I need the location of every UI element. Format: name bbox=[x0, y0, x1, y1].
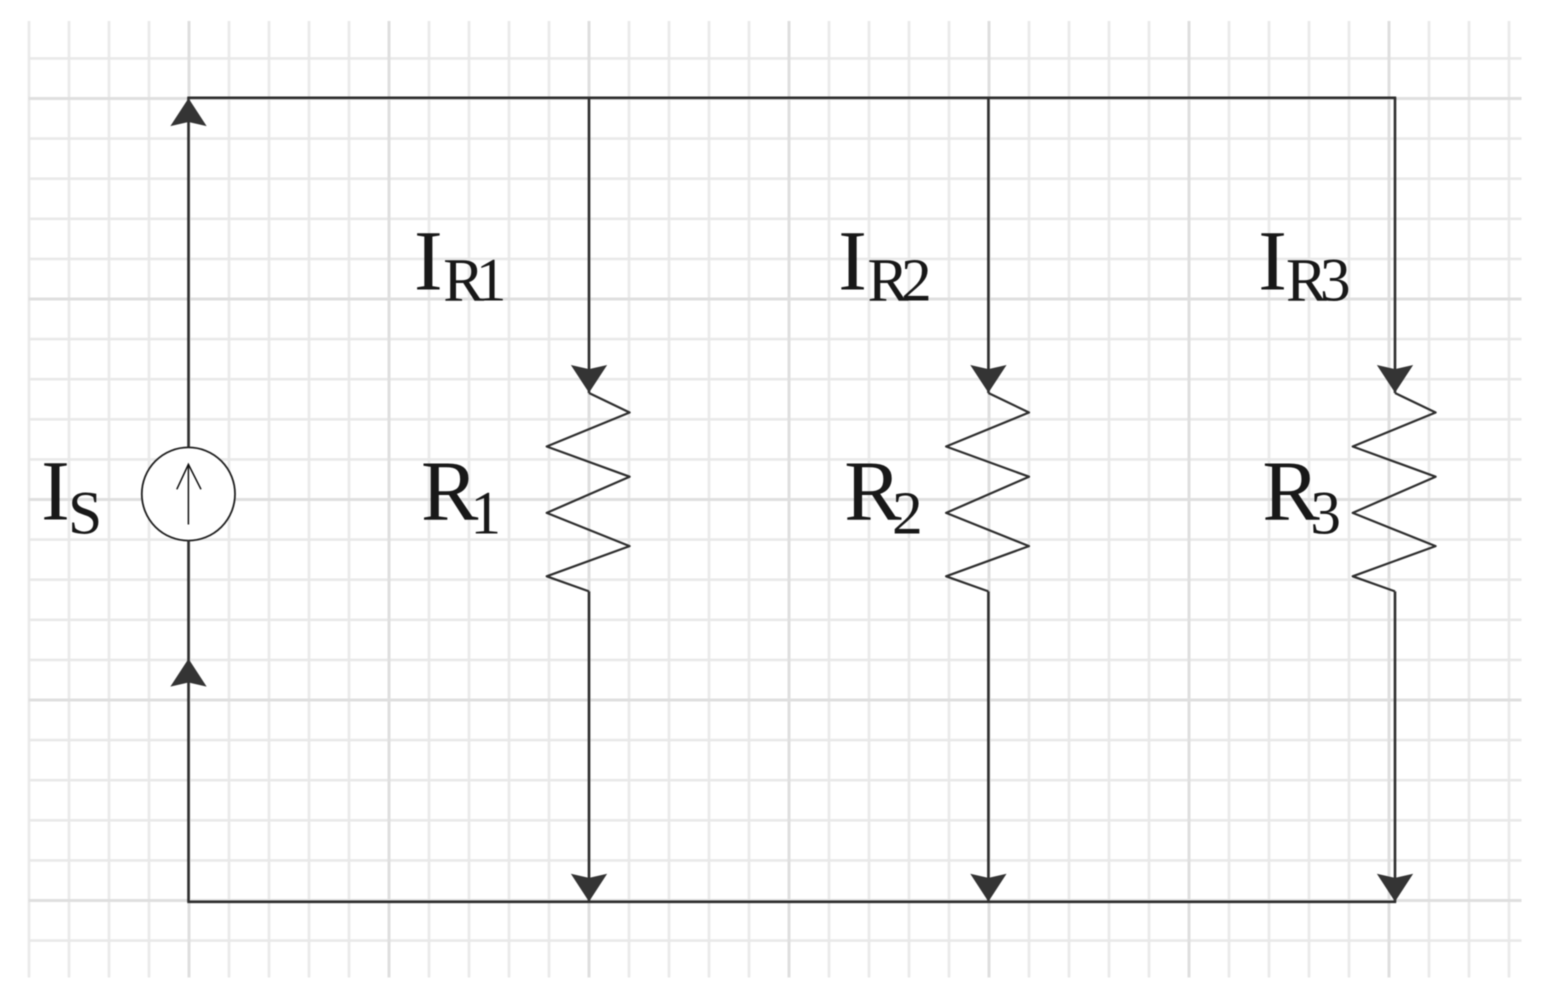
label IR1 (branch current) bbox=[414, 213, 507, 315]
wire R1 branch upper segment bbox=[588, 98, 591, 393]
current arrow IR1 pointing down bbox=[571, 365, 607, 393]
current arrow at bottom of R3 branch bbox=[1377, 874, 1413, 902]
label IR3 (branch current) bbox=[1258, 213, 1350, 315]
svg-text:1: 1 bbox=[470, 480, 501, 548]
svg-text:I: I bbox=[838, 213, 867, 309]
label IR2 (branch current) bbox=[838, 213, 932, 315]
svg-text:I: I bbox=[41, 443, 70, 539]
wire R1 branch lower segment bbox=[588, 591, 591, 901]
resistor R2 zigzag bbox=[946, 393, 1029, 591]
label R1 bbox=[421, 443, 501, 548]
resistor R3 zigzag bbox=[1353, 393, 1436, 591]
current source IS internal arrow bbox=[177, 464, 201, 524]
current direction arrow up below source bbox=[170, 659, 206, 687]
svg-text:3: 3 bbox=[1310, 480, 1341, 548]
wire R2 branch upper segment bbox=[987, 98, 990, 393]
current arrow IR2 pointing down bbox=[970, 365, 1006, 393]
svg-text:3: 3 bbox=[1320, 246, 1351, 314]
label R3 bbox=[1262, 443, 1341, 548]
svg-text:2: 2 bbox=[901, 246, 932, 314]
label R2 bbox=[844, 443, 923, 548]
svg-text:S: S bbox=[68, 480, 102, 548]
wire top horizontal bbox=[187, 97, 1396, 100]
current source IS circle bbox=[142, 447, 235, 540]
current arrow at bottom of R1 branch bbox=[571, 874, 607, 902]
label IS (source current) bbox=[41, 443, 102, 548]
svg-text:2: 2 bbox=[892, 480, 923, 548]
wire left branch upper segment bbox=[187, 98, 190, 448]
wire left branch lower segment bbox=[187, 540, 190, 901]
current arrow at bottom of R2 branch bbox=[970, 874, 1006, 902]
svg-text:I: I bbox=[414, 213, 443, 309]
current direction arrow up at top of source branch bbox=[170, 98, 206, 126]
wire R3 branch lower segment bbox=[1394, 591, 1397, 901]
svg-text:1: 1 bbox=[476, 246, 507, 314]
current arrow IR3 pointing down bbox=[1377, 365, 1413, 393]
wire R2 branch lower segment bbox=[987, 591, 990, 901]
wire R3 branch upper segment bbox=[1394, 98, 1397, 393]
wire bottom horizontal bbox=[187, 900, 1396, 903]
resistor R1 zigzag bbox=[547, 393, 630, 591]
svg-text:I: I bbox=[1258, 213, 1287, 309]
